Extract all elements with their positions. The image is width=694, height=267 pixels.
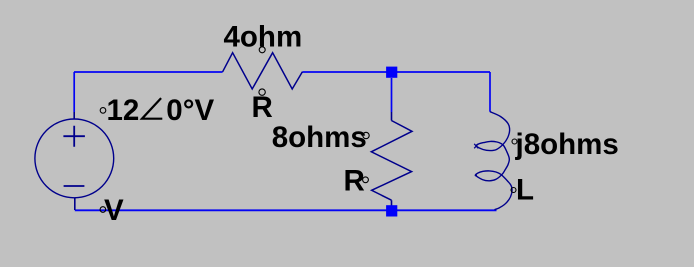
svg-text:R: R xyxy=(344,164,365,197)
svg-text:L: L xyxy=(516,174,534,207)
svg-text:R: R xyxy=(252,91,273,124)
svg-text:0°V: 0°V xyxy=(166,94,214,127)
svg-text:8ohms: 8ohms xyxy=(272,121,367,154)
svg-text:12: 12 xyxy=(107,94,140,127)
svg-text:V: V xyxy=(104,194,124,227)
svg-text:4ohm: 4ohm xyxy=(224,21,303,54)
svg-text:j8ohms: j8ohms xyxy=(515,128,619,161)
